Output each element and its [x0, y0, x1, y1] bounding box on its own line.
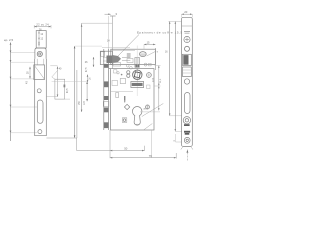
svg-text:Epaisseur de coffre 15,5: Epaisseur de coffre 15,5	[137, 30, 183, 34]
strike screw hole bottom	[38, 130, 42, 134]
screw with cross	[147, 73, 152, 78]
strike screw hole top	[37, 89, 41, 93]
svg-text:20: 20	[184, 10, 188, 14]
mid small dims cluster	[85, 57, 94, 82]
vertical dim line C x81.6	[81, 23, 113, 112]
small box	[120, 79, 125, 84]
strike latch keep box	[34, 65, 45, 80]
cylinder body top view	[135, 58, 140, 68]
vertical dim line B x76.9	[76, 70, 78, 138]
top view case band	[111, 49, 156, 64]
vertical dim line D x87.1	[52, 82, 88, 102]
svg-text:50: 50	[124, 147, 128, 151]
right tall dim lines	[169, 22, 183, 143]
dim 3 faceplate thickness	[105, 12, 118, 68]
interior small parts	[116, 93, 119, 98]
small square with circle	[122, 118, 127, 123]
lock case front view	[111, 69, 155, 130]
screw circle right of cylinder	[146, 105, 150, 109]
small circle pair	[127, 71, 130, 74]
reference lines to strike plate	[11, 53, 38, 133]
euro cylinder hole	[133, 106, 142, 125]
diamond hole left of cylinder	[124, 104, 129, 109]
strike slot	[37, 100, 43, 123]
interior clutter	[117, 72, 119, 74]
bottom dims of case	[110, 130, 176, 159]
right of case small dims	[140, 66, 162, 112]
vertical dim line A x74.6	[74, 46, 102, 138]
strike plate body	[35, 59, 47, 136]
corner cut marks	[181, 147, 193, 149]
strike slot position dim	[46, 66, 62, 97]
top flange line	[102, 47, 130, 49]
forend opening box	[183, 67, 192, 77]
dim 20 forend width	[182, 10, 193, 17]
follower front view	[133, 69, 142, 81]
forend top seam line	[182, 25, 193, 27]
top view latch bevel wedge	[112, 55, 121, 63]
faceplate strip front view	[103, 49, 109, 130]
forend screw hole 3	[184, 79, 189, 84]
forend latch opening	[183, 54, 192, 65]
short diagonal at case bottom corner	[144, 124, 153, 130]
keep height dim	[28, 67, 31, 79]
forend screw hole 2	[185, 46, 190, 51]
top view latch head	[100, 51, 112, 64]
left chain dimension line	[10, 43, 12, 142]
svg-text:40,5: 40,5	[67, 88, 69, 93]
svg-text:76: 76	[149, 154, 153, 158]
top view case back edge	[154, 48, 156, 70]
detail box	[52, 70, 70, 99]
svg-text:47,5: 47,5	[86, 67, 88, 72]
center dashed leader below	[186, 150, 188, 162]
forend slot	[185, 93, 191, 114]
step reference polyline	[47, 138, 111, 151]
top view internal blobs	[127, 53, 131, 58]
centerline	[136, 46, 138, 97]
forend bottom circle	[184, 137, 190, 143]
latch dark block	[107, 56, 113, 64]
forend plate front view	[182, 17, 193, 146]
forend PZ keyhole	[184, 131, 190, 135]
strike plate top box	[36, 31, 46, 48]
deadbolt bar	[131, 82, 144, 88]
internal mechanism base line	[111, 90, 133, 92]
forend brand text	[184, 30, 190, 33]
follower hub top view	[139, 52, 146, 57]
strike plate rounded tab with ring	[35, 48, 46, 59]
diagonal line from cylinder	[142, 104, 164, 117]
leader line of note	[118, 35, 140, 57]
forend screw hole 1	[184, 36, 190, 42]
svg-text:ep. 2,5: ep. 2,5	[4, 38, 14, 42]
hub leader	[147, 51, 156, 56]
dim 15 case thickness	[144, 41, 155, 50]
forend follower hole	[183, 117, 190, 126]
